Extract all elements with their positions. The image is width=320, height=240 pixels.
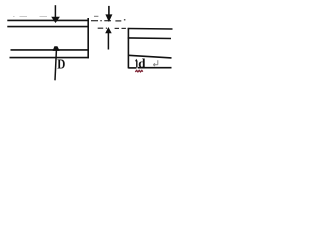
dash-dot reference line, left figure: leading dot bbox=[13, 16, 15, 18]
right figure: bottom line right piece (passes under d) bbox=[138, 67, 172, 69]
svg-text:d: d bbox=[138, 56, 146, 71]
paragraph return mark (Word enter symbol) bbox=[153, 60, 158, 66]
small up arrow (d dimension) tail bbox=[136, 61, 138, 68]
down arrow (left) head bbox=[51, 17, 60, 23]
dash-dot extension of right-figure top level (middle): dot bbox=[106, 27, 107, 29]
background bbox=[0, 0, 187, 83]
right figure: second line R2 bbox=[128, 37, 171, 40]
left tube: bottom wall lower line (L4) bbox=[10, 57, 89, 59]
dash-dot extension of line A level (middle): dash 3 bbox=[115, 20, 121, 22]
dash-dot reference line, left figure: dash 1 bbox=[20, 16, 28, 18]
right figure: top line R1 bbox=[128, 28, 173, 31]
middle up arrow head bbox=[105, 27, 112, 33]
spell-check squiggle under d bbox=[135, 70, 143, 72]
left tube: top wall upper line (A) bbox=[7, 19, 89, 21]
up arrow (left, D dimension) tail bbox=[55, 50, 56, 80]
right figure: left vertical edge bbox=[127, 28, 129, 69]
svg-text:D: D bbox=[57, 57, 65, 72]
dash-dot extension of line A level (middle): dash 1 bbox=[91, 20, 98, 22]
middle down arrow head bbox=[105, 14, 112, 22]
dash-dot extension of line A level (middle): dot bbox=[100, 20, 102, 22]
middle down arrow tail bbox=[108, 6, 110, 15]
left tube: bottom wall upper line (L3) bbox=[11, 49, 89, 51]
middle up arrow tail bbox=[107, 33, 109, 50]
dash-dot reference line, left figure: dash 2 bbox=[40, 16, 48, 18]
left tube: right end vertical edge bbox=[87, 18, 89, 58]
dash-dot extension of right-figure top level (middle): dash 2 bbox=[115, 27, 119, 29]
up arrow (left, D dimension) head bbox=[53, 46, 60, 51]
left tube: top wall lower line (B) bbox=[7, 26, 89, 28]
right figure: bottom line left piece bbox=[128, 67, 136, 69]
dash-dot extension of right-figure top level (middle): dash 1 bbox=[98, 27, 104, 29]
dash-dot extension of right-figure top level (middle): dash 3 bbox=[122, 27, 126, 29]
down arrow (left) tail bbox=[54, 5, 56, 17]
small up arrow (d dimension) head bbox=[135, 59, 138, 61]
dash-dot extension of line A level (middle): dash 2 (passes behind arrow head) bbox=[104, 20, 111, 22]
dash-dot piece at upper level (middle) bbox=[94, 15, 98, 17]
right figure: bottom slanted line R3 bbox=[128, 55, 171, 58]
dash-dot extension of line A level (middle): end dot bbox=[124, 19, 126, 21]
